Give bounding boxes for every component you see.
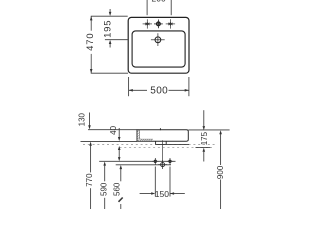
svg-text:195: 195 [103,20,114,38]
drain centerline [162,140,164,162]
siphon outlet [158,160,167,169]
svg-text:130: 130 [77,112,86,126]
tap hole right [166,19,175,28]
dimension 175 [203,110,206,161]
drain connection solid segment [166,143,189,145]
basin bottom reference line left [81,140,138,142]
dimension 200 top (clipped) [147,0,171,15]
dimension 150 [140,167,185,197]
line under 175 arrow [196,147,211,149]
svg-text:40: 40 [109,125,118,134]
tap hole tick side view [159,128,161,130]
svg-text:560: 560 [112,182,121,196]
svg-text:500: 500 [150,85,168,96]
dimension 590 [103,162,106,210]
dimension 130 [88,113,91,130]
tap hole center [154,20,163,29]
fixing hole right [167,158,174,165]
basin bowl inner plan [132,31,185,67]
svg-text:175: 175 [200,131,209,145]
svg-text:150: 150 [155,189,169,199]
dimension 500 [129,77,189,96]
tap hole left [143,19,152,28]
siphon reference line [116,164,171,166]
svg-text:770: 770 [85,173,94,187]
rim top reference line right [188,129,229,131]
ceramic inner wall line [140,130,154,139]
svg-text:470: 470 [85,33,96,51]
dimension 195 [105,9,128,48]
drain stub side view [156,141,167,144]
dimension 900 [219,130,222,209]
dimension 560 [119,165,123,209]
supply dashed line lower [120,147,213,149]
rim top reference line left [88,129,137,131]
dimension 470 [90,16,128,73]
dimension 40 [118,128,121,161]
basin profile side view [137,130,188,142]
ceramic section hatch [137,130,152,141]
supply dashed line upper [83,144,217,146]
basin outer rim plan [128,17,189,73]
drain plan [151,33,165,46]
dimension 770 [89,142,92,209]
fixing holes reference line [99,160,175,162]
svg-text:900: 900 [216,165,225,179]
fixing hole left [152,158,159,165]
svg-text:200: 200 [152,0,166,4]
svg-text:590: 590 [99,182,108,196]
